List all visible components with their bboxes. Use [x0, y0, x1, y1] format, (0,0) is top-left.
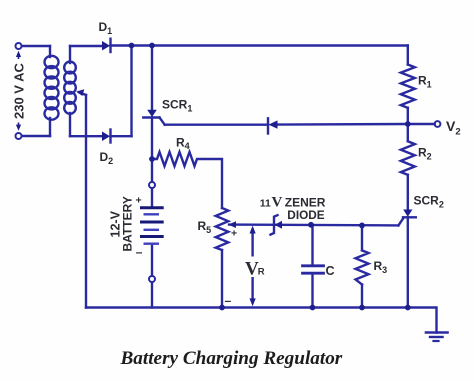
- svg-text:C: C: [326, 264, 335, 278]
- svg-text:D1: D1: [99, 20, 113, 36]
- svg-text:11: 11: [260, 197, 271, 209]
- svg-text:R2: R2: [418, 146, 432, 162]
- svg-text:SCR2: SCR2: [414, 194, 444, 210]
- svg-text:+: +: [136, 195, 142, 207]
- svg-text:SCR1: SCR1: [162, 98, 192, 114]
- svg-text:DIODE: DIODE: [287, 208, 324, 222]
- svg-text:Battery Charging Regulator: Battery Charging Regulator: [120, 348, 343, 369]
- svg-text:R3: R3: [374, 259, 388, 275]
- svg-text:+: +: [231, 228, 237, 240]
- svg-text:R4: R4: [176, 136, 190, 152]
- svg-text:V2: V2: [446, 118, 461, 138]
- svg-text:R5: R5: [198, 219, 212, 235]
- svg-text:230 V AC: 230 V AC: [12, 63, 27, 119]
- svg-text:D2: D2: [100, 150, 114, 166]
- svg-text:–: –: [136, 245, 143, 259]
- svg-text:BATTERY: BATTERY: [121, 196, 135, 251]
- svg-text:R1: R1: [418, 74, 432, 90]
- svg-text:–: –: [225, 294, 232, 308]
- svg-text:V: V: [272, 195, 283, 211]
